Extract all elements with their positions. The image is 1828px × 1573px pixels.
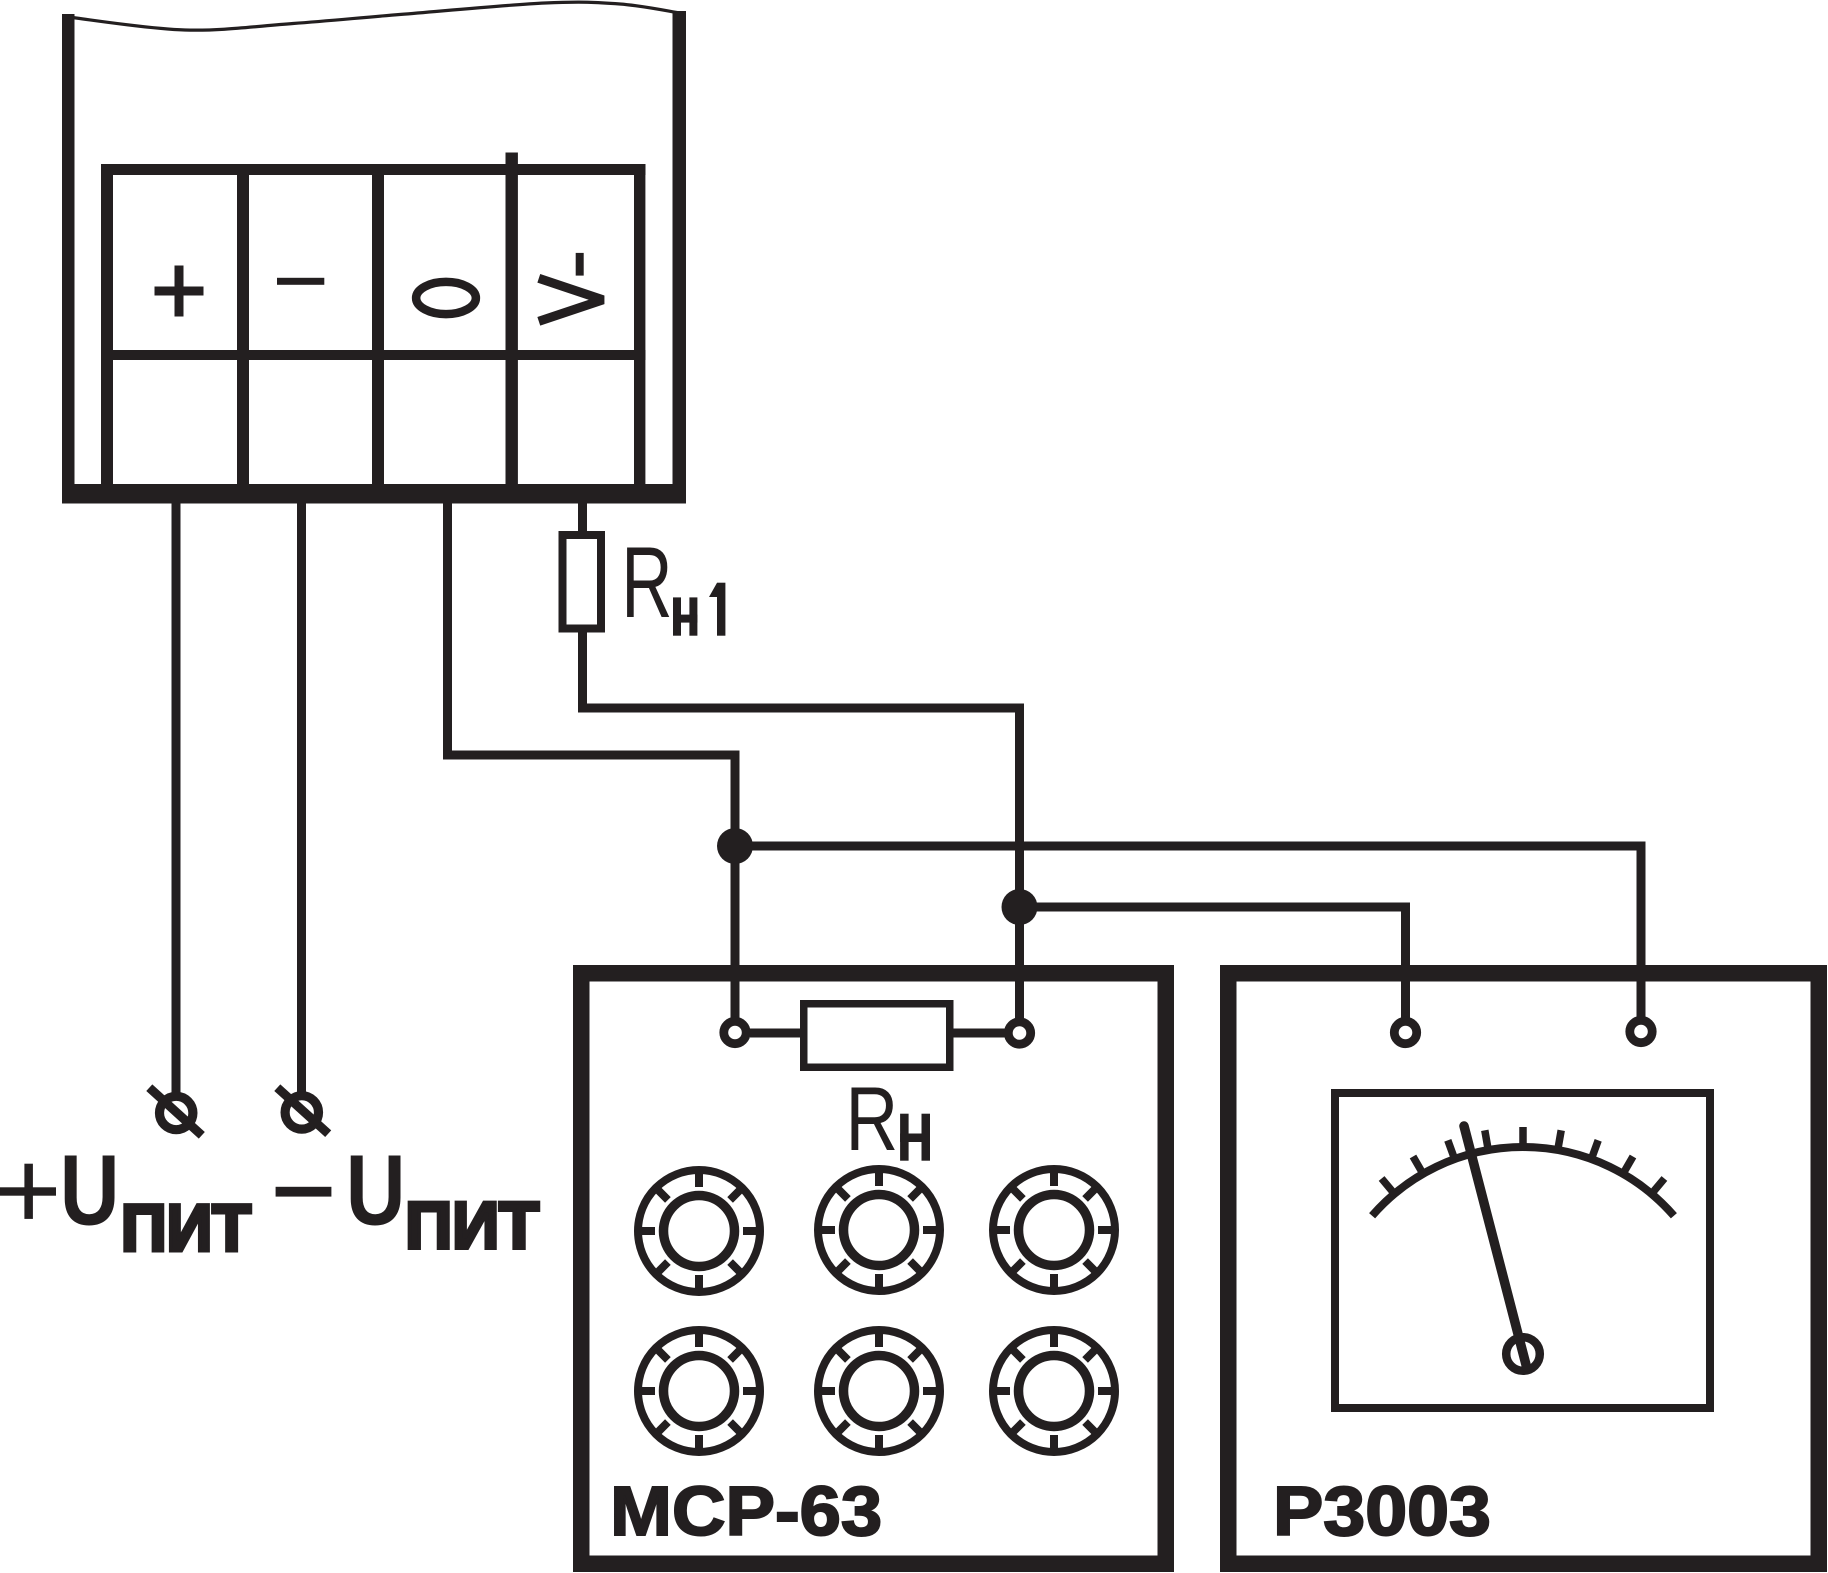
screw terminal circle +Upit xyxy=(149,1088,202,1136)
svg-text:U: U xyxy=(60,1135,120,1247)
MCP-63 right terminal xyxy=(1008,1022,1030,1044)
svg-text:ПИТ: ПИТ xyxy=(121,1191,251,1265)
knob 5 xyxy=(818,1330,940,1452)
label -Upit xyxy=(276,1135,539,1263)
wire from terminal 0 to MCP-63 left terminal xyxy=(448,503,736,1020)
meter scale ticks xyxy=(1382,1127,1665,1195)
label +Upit xyxy=(0,1135,251,1265)
svg-text:ПИТ: ПИТ xyxy=(405,1188,539,1262)
meter pivot xyxy=(1506,1337,1540,1371)
svg-text:P3003: P3003 xyxy=(1273,1472,1491,1550)
knob 4 xyxy=(638,1330,760,1452)
resistor Rn1 xyxy=(563,535,602,629)
junction node A (on wire 0) xyxy=(717,828,753,864)
wire +Upit (from terminal 1 down) xyxy=(172,503,181,1097)
MCP-63 box (resistance box) xyxy=(581,973,1166,1564)
P3003 left terminal xyxy=(1394,1021,1416,1043)
wire resistor Rn to right terminal xyxy=(950,1029,1005,1038)
wire -Upit (from terminal 2 down) xyxy=(297,503,306,1096)
terminal label V- (rotated) xyxy=(539,253,603,321)
knob 6 xyxy=(993,1330,1115,1452)
wire from node A to P3003 right terminal xyxy=(735,846,1641,1019)
transmitter device outline (torn-edge body) xyxy=(62,2,686,503)
terminal label 0 (rotated) xyxy=(416,282,476,314)
svg-text:R: R xyxy=(846,1068,899,1170)
terminal block table xyxy=(101,153,646,485)
terminal label + xyxy=(155,266,204,317)
meter display frame xyxy=(1335,1093,1710,1408)
wire left terminal to resistor Rn xyxy=(750,1029,803,1038)
terminal label minus xyxy=(277,278,324,285)
label Rn xyxy=(846,1068,931,1170)
knob 1 xyxy=(638,1170,760,1292)
screw terminal circle -Upit xyxy=(277,1088,328,1134)
wire from terminal V- down to resistor Rn1 xyxy=(578,503,587,537)
junction node B (on resistor wire) xyxy=(1002,889,1038,925)
P3003 right terminal xyxy=(1630,1020,1652,1042)
meter scale arc xyxy=(1372,1147,1674,1216)
MCP-63 left terminal xyxy=(724,1021,746,1043)
meter needle xyxy=(1464,1126,1527,1367)
wire from node B to P3003 left terminal xyxy=(1020,907,1406,1019)
svg-text:R: R xyxy=(621,525,672,639)
svg-text:MCP-63: MCP-63 xyxy=(610,1472,882,1550)
svg-text:U: U xyxy=(346,1135,406,1247)
knob 2 xyxy=(818,1169,940,1291)
P3003 box (voltmeter) xyxy=(1228,973,1819,1564)
resistor Rn xyxy=(804,1004,950,1068)
wire from resistor Rn1 to MCP-63 right terminal xyxy=(583,628,1020,1020)
label Rn1 xyxy=(621,525,725,639)
knob 3 xyxy=(993,1169,1115,1291)
